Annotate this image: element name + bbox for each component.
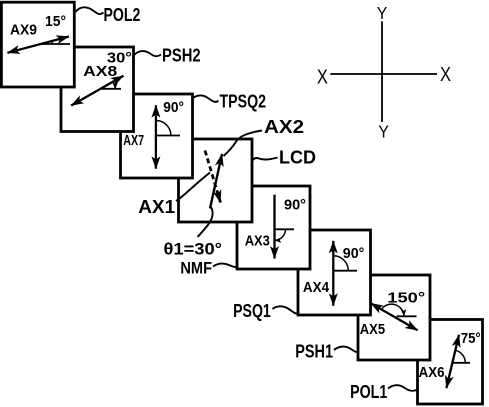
leader theta1 [198, 207, 213, 238]
svg-text:X: X [317, 67, 328, 89]
XY cross horizontal line [330, 73, 437, 75]
baseline in square NMF [275, 228, 295, 230]
leader LCD [252, 158, 278, 162]
svg-text:PSQ1: PSQ1 [233, 301, 271, 321]
leader AX1 [176, 173, 210, 202]
angle arc 90 deg (NMF) [275, 229, 286, 240]
svg-text:Y: Y [378, 122, 389, 142]
baseline in square PSQ1 [333, 270, 357, 272]
angle arc 90 deg (TPSQ2) [156, 121, 171, 136]
svg-text:75°: 75° [461, 330, 481, 347]
svg-text:AX5: AX5 [360, 321, 385, 338]
svg-text:AX6: AX6 [419, 364, 445, 381]
layer square POL1 (AX6) [418, 320, 483, 405]
baseline in square TPSQ2 [156, 135, 180, 137]
leader AX2 [224, 131, 263, 157]
baseline in square PSH1 [397, 315, 417, 317]
svg-text:PSH2: PSH2 [162, 46, 201, 66]
leader POL2 [76, 7, 104, 14]
svg-text:90°: 90° [343, 245, 365, 262]
leader PSH1 [334, 347, 358, 352]
svg-text:30°: 30° [107, 50, 132, 67]
leader PSQ1 [273, 306, 298, 313]
svg-text:LCD: LCD [279, 148, 316, 168]
layer square PSH2 (AX8) [61, 47, 134, 132]
svg-text:AX1: AX1 [138, 197, 175, 217]
layer square LCD (AX1/AX2) [179, 139, 253, 222]
layer square PSQ1 (AX4) [298, 230, 371, 315]
baseline in square POL1 [452, 362, 470, 364]
baseline in square PSH2 [100, 88, 121, 90]
svg-text:X: X [440, 64, 451, 86]
svg-text:θ1=30°: θ1=30° [164, 241, 223, 259]
svg-text:150°: 150° [387, 290, 425, 307]
axis arrow AX4 (90 deg, double headed) [332, 241, 334, 306]
leader PSH2 [134, 51, 161, 56]
angle arc 75 deg [455, 350, 465, 363]
angle arc 150 deg [382, 304, 404, 316]
svg-text:AX4: AX4 [303, 279, 330, 296]
angle arc 90 deg (PSQ1) [333, 256, 348, 271]
layer square TPSQ2 (AX7) [121, 94, 193, 178]
svg-text:TPSQ2: TPSQ2 [220, 92, 267, 112]
svg-text:AX2: AX2 [264, 117, 304, 137]
svg-text:POL1: POL1 [350, 382, 387, 402]
angle arc 30 deg [113, 82, 115, 89]
leader NMF [213, 264, 238, 267]
svg-text:AX3: AX3 [245, 232, 270, 249]
svg-text:PSH1: PSH1 [295, 342, 333, 362]
leader TPSQ2 [193, 95, 219, 101]
svg-text:POL2: POL2 [104, 5, 141, 25]
svg-text:AX7: AX7 [123, 132, 144, 149]
layer square POL2 (AX9) [1, 2, 74, 87]
axis arrow AX2 (solid, head up) [210, 154, 222, 209]
svg-text:90°: 90° [284, 197, 306, 214]
XY cross vertical line [381, 21, 383, 122]
axis arrow AX3 (down, single head) [273, 195, 275, 259]
axis arrow AX7 (90 deg, double headed) [155, 105, 157, 169]
layer square PSH1 (AX5) [358, 275, 430, 360]
svg-text:90°: 90° [163, 99, 184, 116]
svg-text:NMF: NMF [180, 258, 212, 277]
svg-text:AX9: AX9 [10, 21, 37, 38]
layer square NMF (AX3) [237, 186, 310, 269]
axis arrow AX6 (75 deg, double headed) [446, 335, 459, 388]
axis arrow AX1 (dashed, head down) [205, 151, 221, 203]
svg-text:15°: 15° [45, 13, 66, 30]
leader POL1 [388, 385, 417, 391]
svg-text:Y: Y [377, 3, 388, 23]
axis arrow AX8 (30 deg, double headed) [71, 76, 123, 106]
axis arrow AX5 (150 deg, double headed) [371, 303, 418, 330]
axis arrow AX9 (15 deg, double headed) [7, 37, 69, 53]
baseline in square POL2 [41, 43, 70, 45]
angle arc 15 deg [51, 41, 54, 44]
